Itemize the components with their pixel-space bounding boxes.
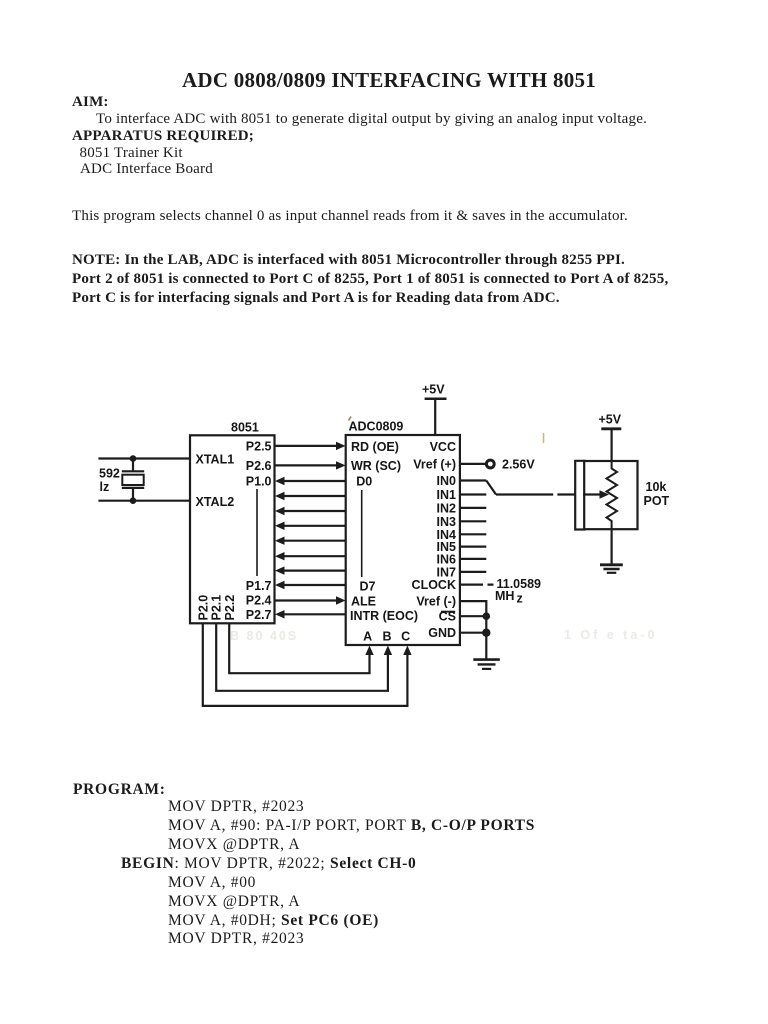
svg-text:Vref (-): Vref (-) <box>416 595 456 609</box>
arrowhead D5 <box>275 552 285 560</box>
wire +5V to POT top <box>610 429 612 461</box>
arrowhead D4 <box>275 537 285 545</box>
wire Vref(+) to 2.56V terminal <box>460 463 486 465</box>
wire data bit D2 <box>285 510 346 512</box>
pin stub CS <box>460 615 486 617</box>
svg-text:IN2: IN2 <box>437 501 457 515</box>
wire P2.0 to C <box>203 623 408 706</box>
svg-text:MH: MH <box>495 589 514 603</box>
svg-text:P2.5: P2.5 <box>246 439 272 453</box>
svg-text:XTAL1: XTAL1 <box>196 453 235 467</box>
svg-text:1 Of e ta-0: 1 Of e ta-0 <box>564 628 657 642</box>
wire data bit D7 <box>285 584 346 586</box>
junction dot XTAL1 <box>130 455 137 462</box>
title <box>5 68 768 93</box>
wire Vref(-) down to ground <box>460 601 486 659</box>
IC U2 ADC0809 outline <box>346 435 460 645</box>
junction dot CS net <box>483 612 491 620</box>
pin stub IN7 <box>460 571 486 573</box>
svg-text:D7: D7 <box>360 579 376 593</box>
wire IN0 channel to POT wiper <box>496 493 575 495</box>
arrowhead B <box>384 646 392 656</box>
note block <box>72 251 668 309</box>
pin stub IN4 <box>460 533 486 535</box>
junction dot XTAL2 <box>130 497 137 504</box>
scan artifact tan dash <box>543 433 545 443</box>
wire +5V to VCC <box>434 399 436 435</box>
wire INTR: INTR(EOC) to P2.7 <box>285 613 346 615</box>
svg-text:10k: 10k <box>646 480 667 494</box>
wire XTAL2 <box>98 500 190 502</box>
wire data bit D0 <box>285 480 346 482</box>
wire ALE: P2.4 to ALE <box>274 599 337 601</box>
program listing <box>73 781 166 800</box>
arrowhead D7 <box>275 581 285 589</box>
wire P2.2 to A <box>229 623 369 673</box>
svg-text:+5V: +5V <box>422 383 445 397</box>
pin stub IN0 <box>460 479 486 481</box>
svg-text:CLOCK: CLOCK <box>412 578 456 592</box>
arrowhead D1 <box>275 492 285 500</box>
svg-text:8051: 8051 <box>231 421 259 435</box>
IC U1 8051 outline <box>190 435 275 623</box>
arrowhead D3 <box>275 522 285 530</box>
potentiometer bracket <box>575 461 585 530</box>
svg-text:z: z <box>517 592 523 606</box>
svg-text:P2.2: P2.2 <box>223 595 237 621</box>
crystal Y1 body and plates <box>122 459 144 501</box>
wire data bit D4 <box>285 540 346 542</box>
pin stub IN1 <box>460 493 486 495</box>
svg-text:RD (OE): RD (OE) <box>351 440 399 454</box>
overline of CS pin <box>441 611 455 613</box>
svg-text:Vref (+): Vref (+) <box>413 457 456 471</box>
wire XTAL1 <box>98 457 190 459</box>
svg-text:CS: CS <box>439 610 456 624</box>
svg-text:P1.7: P1.7 <box>246 579 272 593</box>
arrowhead POT wiper <box>600 490 610 498</box>
svg-text:IN6: IN6 <box>437 552 457 566</box>
wire data bit D3 <box>285 525 346 527</box>
pin stub GND <box>460 632 486 634</box>
ground symbol below POT <box>600 563 623 566</box>
svg-text:P2.4: P2.4 <box>246 594 272 608</box>
pin stub CLOCK <box>460 583 494 585</box>
svg-text:P2.6: P2.6 <box>246 459 272 473</box>
svg-text:XTAL2: XTAL2 <box>196 495 235 509</box>
potentiometer body outline <box>584 461 637 529</box>
svg-text:B 80 40S: B 80 40S <box>230 629 298 643</box>
wire RD: P2.5 to RD(OE) <box>274 445 337 447</box>
wire data bit D6 <box>285 569 346 571</box>
pin stub IN2 <box>460 507 486 509</box>
wire data bit D1 <box>285 495 346 497</box>
wire POT bottom to ground <box>610 529 612 564</box>
arrowhead D0 <box>275 477 285 485</box>
svg-text:WR (SC): WR (SC) <box>351 459 401 473</box>
continuation mark inside 8051 <box>256 489 258 576</box>
pin stub IN3 <box>460 520 486 522</box>
wiper arrow wire <box>583 493 600 495</box>
aim heading <box>72 94 109 111</box>
svg-text:A: A <box>363 630 372 644</box>
svg-text:POT: POT <box>644 494 670 508</box>
arrowhead D6 <box>275 566 285 574</box>
power rail bar +5V (POT) <box>601 427 621 430</box>
arrowhead C <box>403 646 411 656</box>
arrowhead RD <box>336 442 346 450</box>
svg-text:P2.0: P2.0 <box>196 595 210 621</box>
svg-text:IN3: IN3 <box>437 515 457 529</box>
svg-text:+5V: +5V <box>599 413 622 427</box>
svg-text:2.56V: 2.56V <box>502 458 535 472</box>
svg-text:P1.0: P1.0 <box>246 474 272 488</box>
wire data bit D5 <box>285 555 346 557</box>
continuation mark inside ADC0809 <box>361 490 363 577</box>
arrowhead A <box>365 646 373 656</box>
arrowhead ALE <box>336 596 346 604</box>
svg-text:VCC: VCC <box>430 440 456 454</box>
arrowhead D2 <box>275 507 285 515</box>
svg-text:lz: lz <box>100 480 110 494</box>
resistor element of 10k POT <box>607 461 618 529</box>
svg-text:D0: D0 <box>356 474 372 488</box>
ground symbol below ADC <box>473 658 500 661</box>
arrowhead INTR <box>275 610 285 618</box>
svg-text:P2.1: P2.1 <box>210 595 224 621</box>
svg-text:P2.7: P2.7 <box>246 608 272 622</box>
svg-text:IN1: IN1 <box>437 488 457 502</box>
terminal 2.56V ring <box>486 460 494 468</box>
svg-text:C: C <box>401 630 410 644</box>
svg-text:592: 592 <box>99 467 120 481</box>
pin stub IN5 <box>460 545 486 547</box>
svg-text:IN0: IN0 <box>437 474 457 488</box>
svg-text:ALE: ALE <box>351 594 376 608</box>
scan artifact tick near ADC0809 <box>349 417 352 421</box>
wire WR: P2.6 to WR(SC) <box>274 464 337 466</box>
arrowhead WR <box>336 461 346 469</box>
svg-text:INTR (EOC): INTR (EOC) <box>350 609 418 623</box>
junction dot GND net <box>482 629 490 637</box>
power rail bar +5V (VCC) <box>425 398 447 401</box>
pin stub IN6 <box>460 558 486 560</box>
svg-text:GND: GND <box>428 626 456 640</box>
wire P2.1 to B <box>216 623 388 691</box>
svg-text:B: B <box>382 630 391 644</box>
switch blade IN0 select <box>486 481 496 495</box>
program description <box>72 208 628 225</box>
svg-text:ADC0809: ADC0809 <box>349 420 404 434</box>
